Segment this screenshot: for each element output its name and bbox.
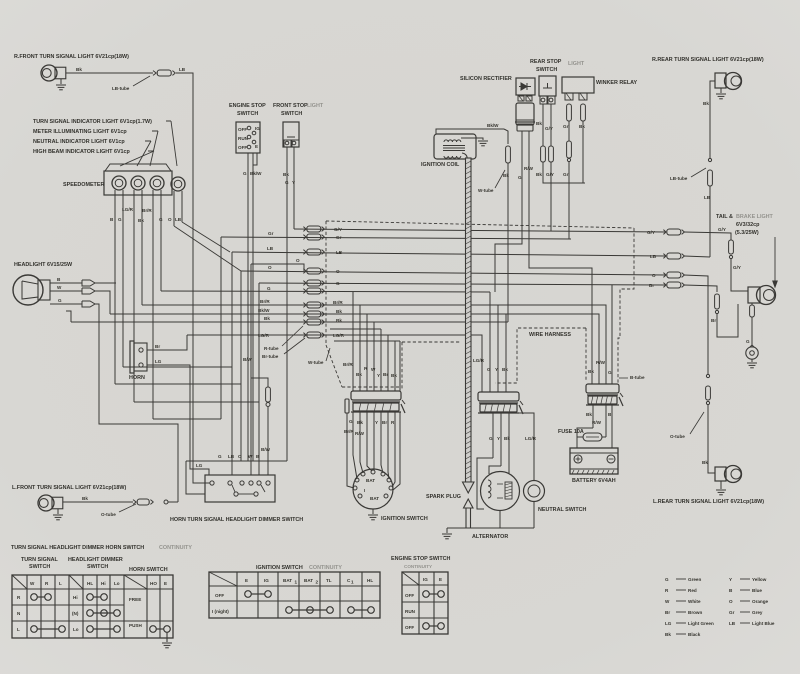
- svg-text:SWITCH: SWITCH: [29, 564, 50, 570]
- short stub wire near headlight: [66, 311, 71, 322]
- svg-text:E: E: [439, 577, 442, 582]
- svg-text:L.REAR TURN SIGNAL LIGHT 6V21c: L.REAR TURN SIGNAL LIGHT 6V21cp(18W): [653, 499, 764, 505]
- svg-text:G: G: [746, 339, 750, 344]
- wire G/Y from front stop switch: [293, 147, 295, 229]
- svg-text:LB-tube: LB-tube: [670, 176, 688, 181]
- svg-text:CONTINUITY: CONTINUITY: [309, 565, 342, 571]
- svg-text:Bk: Bk: [665, 632, 671, 637]
- wire LB drop to dimmer switch: [231, 252, 233, 475]
- svg-text:Bk: Bk: [357, 420, 363, 425]
- battery plus terminal: [574, 455, 582, 463]
- wire LB to R.rear drop: [684, 256, 710, 257]
- svg-text:NEUTRAL SWITCH: NEUTRAL SWITCH: [538, 507, 587, 513]
- svg-text:White: White: [688, 599, 701, 604]
- svg-text:Gr: Gr: [268, 231, 274, 236]
- svg-text:Br: Br: [711, 318, 716, 323]
- tail lamp ground path: [751, 303, 753, 305]
- svg-text:BAT: BAT: [304, 578, 313, 583]
- wire Gr from relay: [568, 121, 570, 141]
- extra horizontal feeders: [330, 328, 381, 330]
- svg-text:6V3/32cp: 6V3/32cp: [736, 222, 760, 228]
- wire R/W from rectifier: [529, 131, 592, 384]
- svg-text:Bk: Bk: [82, 496, 88, 501]
- dashed harness outline top: [326, 221, 634, 228]
- svg-text:O: O: [268, 265, 272, 270]
- svg-text:Br: Br: [155, 344, 160, 349]
- svg-text:E: E: [245, 578, 248, 583]
- svg-text:G: G: [336, 281, 340, 286]
- wire Br to tail lamp return: [684, 285, 717, 292]
- table 2 frame: [209, 572, 380, 618]
- wire bus Gr: [221, 237, 571, 239]
- table 1 continuity row Lo: [87, 626, 94, 633]
- wire G down-left loop to L.front area: [95, 304, 178, 502]
- table 3 continuity row OFF 1: [423, 591, 430, 598]
- wire LG/R from bulb2: [133, 196, 135, 402]
- svg-text:O-tube: O-tube: [670, 434, 685, 439]
- table 1 continuity row (N): [87, 610, 94, 617]
- R.rear turn signal lamp: [715, 73, 726, 88]
- table 1 frame: [12, 575, 173, 638]
- svg-text:1: 1: [351, 580, 354, 585]
- bus connector O: [303, 269, 306, 271]
- L.front turn signal lamp: [38, 495, 54, 511]
- wire Bk from rear stop switch: [542, 104, 544, 146]
- svg-text:Y: Y: [497, 436, 500, 441]
- svg-text:Bk: Bk: [138, 218, 144, 223]
- svg-text:W: W: [57, 285, 62, 290]
- svg-text:B-tube: B-tube: [630, 375, 645, 380]
- svg-text:LB: LB: [175, 217, 182, 222]
- wire G/Y to tail light: [684, 232, 731, 240]
- svg-text:Y: Y: [292, 180, 295, 185]
- wire B to junction: [95, 282, 116, 284]
- svg-text:BRAKE LIGHT: BRAKE LIGHT: [736, 214, 774, 220]
- wire bus Bk: [71, 321, 508, 323]
- wire G/Y down to tail lamp: [731, 259, 748, 291]
- svg-text:Gr: Gr: [336, 235, 342, 240]
- horn body: [130, 341, 134, 373]
- side tab of connector block: [345, 399, 349, 413]
- svg-text:Gr: Gr: [563, 124, 569, 129]
- svg-text:Br-tube: Br-tube: [262, 354, 279, 359]
- table 1 ground under E column: [166, 632, 168, 642]
- wire G from bulb3: [160, 196, 162, 291]
- svg-text:Br: Br: [383, 372, 388, 377]
- table 1 header diagonals: [12, 575, 27, 589]
- svg-text:G/Y: G/Y: [718, 227, 726, 232]
- svg-text:O: O: [336, 269, 340, 274]
- wires below harness connector: [492, 413, 494, 458]
- svg-text:TURN SIGNAL HEADLIGHT DIMMER H: TURN SIGNAL HEADLIGHT DIMMER HORN SWITCH: [11, 545, 144, 551]
- svg-text:Bk/W: Bk/W: [258, 308, 270, 313]
- svg-text:Br/R: Br/R: [333, 300, 343, 305]
- wire B/W drop with connector to dimmer switch: [251, 314, 268, 387]
- svg-text:R.FRONT TURN SIGNAL LIGHT 6V21: R.FRONT TURN SIGNAL LIGHT 6V21cp(18W): [14, 54, 129, 60]
- svg-text:O: O: [168, 217, 172, 222]
- ground symbol: [446, 528, 448, 533]
- dimmer switch terminals bottom row: [234, 492, 238, 496]
- svg-text:HORN TURN SIGNAL HEADLIGHT DIM: HORN TURN SIGNAL HEADLIGHT DIMMER SWITCH: [170, 517, 303, 523]
- svg-text:Gr: Gr: [563, 172, 569, 177]
- svg-text:(N): (N): [72, 611, 79, 616]
- wire Bk from bulb3: [152, 196, 154, 419]
- wire LB from bulb4: [181, 197, 183, 222]
- wire bus LB: [232, 252, 666, 256]
- svg-text:FUSE 10A: FUSE 10A: [558, 429, 584, 435]
- wire Bk to junction: [543, 162, 585, 183]
- svg-text:SWITCH: SWITCH: [87, 564, 108, 570]
- svg-text:Y: Y: [495, 367, 498, 372]
- svg-text:BAT: BAT: [370, 496, 379, 501]
- bus connector Br/R: [303, 303, 306, 305]
- wire Y to alternator: [489, 466, 501, 474]
- svg-text:(5.3/25W): (5.3/25W): [735, 230, 759, 236]
- wire LB down to dimmer switch: [176, 73, 205, 483]
- battery terminal ticks: [570, 468, 618, 470]
- svg-text:Y: Y: [377, 373, 380, 378]
- svg-text:L.FRONT TURN SIGNAL LIGHT 6V21: L.FRONT TURN SIGNAL LIGHT 6V21cp(18W): [12, 485, 127, 491]
- svg-text:Light Blue: Light Blue: [752, 621, 775, 626]
- svg-text:IG: IG: [423, 577, 428, 582]
- tube 2 on Gr wire: [567, 141, 572, 158]
- svg-text:PUSH: PUSH: [129, 623, 142, 628]
- winker relay body: [562, 77, 594, 93]
- silicon rectifier connectors: [518, 96, 524, 101]
- svg-text:W: W: [665, 599, 670, 604]
- right connector G/Y: [663, 230, 666, 232]
- svg-text:G: G: [218, 454, 222, 459]
- svg-text:O: O: [238, 454, 242, 459]
- svg-text:O: O: [729, 599, 733, 604]
- svg-text:G: G: [608, 370, 612, 375]
- svg-text:Light Green: Light Green: [688, 621, 714, 626]
- svg-text:O-tube: O-tube: [101, 512, 116, 517]
- svg-text:BAT: BAT: [283, 578, 292, 583]
- svg-text:HO: HO: [150, 581, 157, 586]
- svg-text:G/Y: G/Y: [334, 227, 342, 232]
- dimmer switch body: [205, 475, 275, 502]
- speedometer bulb 1: [112, 176, 126, 190]
- svg-text:G: G: [58, 298, 62, 303]
- speedometer bulb 2: [131, 176, 145, 190]
- dashed harness outline left: [325, 221, 327, 345]
- svg-text:W-tube: W-tube: [478, 188, 494, 193]
- svg-text:Bk: Bk: [283, 172, 289, 177]
- svg-text:BATTERY 6V4AH: BATTERY 6V4AH: [572, 478, 616, 484]
- fuse 10A body: [583, 433, 602, 441]
- tail and brake lamp: [748, 287, 760, 303]
- svg-text:HEADLIGHT DIMMER: HEADLIGHT DIMMER: [68, 557, 123, 563]
- svg-text:HORN: HORN: [129, 375, 145, 381]
- table 3 header diagonal: [402, 572, 419, 585]
- svg-text:WIRE HARNESS: WIRE HARNESS: [529, 332, 571, 338]
- svg-text:Bk: Bk: [588, 369, 594, 374]
- wire bus O: [241, 271, 666, 275]
- svg-text:SILICON RECTIFIER: SILICON RECTIFIER: [460, 76, 512, 82]
- wire bus LG/R: [187, 335, 482, 392]
- wire bus Br/R: [142, 305, 606, 384]
- svg-text:LG: LG: [155, 359, 162, 364]
- wire Bk/W down to rectifier area: [504, 129, 508, 144]
- wires from buses down to harness connector: [489, 292, 491, 392]
- table 1 continuity row PUSH: [150, 626, 157, 633]
- tube on tail G/Y wire: [729, 240, 734, 254]
- wire G/Y from rear stop switch: [550, 104, 552, 146]
- svg-text:LG/R: LG/R: [258, 333, 270, 338]
- wire Br from horn: [147, 335, 187, 350]
- spark plug cable arrowhead: [463, 482, 475, 493]
- wire Br corner to tail lamp: [717, 304, 738, 337]
- svg-text:Br: Br: [382, 420, 387, 425]
- wire Bk down from R.rear lamp: [710, 81, 715, 158]
- svg-text:LG/R: LG/R: [333, 333, 345, 338]
- svg-text:METER ILLUMINATING LIGHT 6V1cp: METER ILLUMINATING LIGHT 6V1cp: [33, 129, 127, 135]
- wires from connector to ignition switch: [353, 412, 357, 479]
- svg-text:G: G: [518, 175, 522, 180]
- svg-text:HIGH BEAM INDICATOR LIGHT 6V1c: HIGH BEAM INDICATOR LIGHT 6V1cp: [33, 149, 131, 155]
- bus connector Bk: [303, 320, 306, 322]
- ignition coil core: [443, 145, 465, 147]
- svg-text:Bk: Bk: [76, 67, 82, 72]
- headlight lamp: [13, 275, 43, 305]
- wire G from rectifier: [495, 131, 522, 292]
- ignition coil primary winding: [444, 140, 461, 142]
- svg-text:IG: IG: [255, 126, 260, 131]
- svg-text:R/W: R/W: [524, 166, 534, 171]
- dimmer switch left bracket wires: [205, 482, 210, 484]
- table 1 continuity row Hi: [87, 594, 94, 601]
- wire branch down to battery connector: [611, 285, 613, 384]
- svg-text:Bk/W: Bk/W: [250, 171, 262, 176]
- silicon rectifier diode box: [516, 78, 535, 95]
- bullet connector on B wire: [82, 280, 95, 286]
- engine stop switch body: [236, 122, 260, 153]
- spark plug electrode arrow: [464, 499, 474, 508]
- table 1 continuity row R: [31, 594, 38, 601]
- bus connector Gr: [303, 235, 306, 237]
- svg-text:LG: LG: [196, 463, 203, 468]
- svg-text:G: G: [118, 217, 122, 222]
- svg-text:SWITCH: SWITCH: [536, 67, 557, 73]
- wire fuse to battery plus: [576, 437, 578, 448]
- svg-text:2: 2: [316, 580, 319, 585]
- wire Gr drop to dimmer switch: [220, 237, 222, 419]
- wire O short jumper: [251, 264, 304, 271]
- wire O down to L.rear lamp: [706, 374, 709, 377]
- connector block harness: [478, 392, 519, 401]
- svg-text:Br/R: Br/R: [142, 208, 152, 213]
- wire W from headlight: [50, 290, 82, 292]
- alternator internal contact: [505, 482, 512, 499]
- svg-text:Br: Br: [665, 610, 670, 615]
- svg-text:IGNITION COIL: IGNITION COIL: [421, 162, 460, 168]
- svg-text:HEADLIGHT 6V15/25W: HEADLIGHT 6V15/25W: [14, 262, 73, 268]
- ground of R.rear turn signal: [720, 88, 722, 93]
- dashed box around harness connector: [495, 328, 586, 383]
- leader lines from labels to bulbs: [166, 120, 171, 122]
- ground bus wire: [447, 527, 534, 529]
- winker relay connectors: [565, 93, 573, 100]
- svg-text:IGNITION SWITCH: IGNITION SWITCH: [256, 565, 303, 571]
- table 3 continuity row OFF 2: [423, 623, 430, 630]
- ignition coil secondary winding: [444, 156, 461, 158]
- ignition switch pins: [371, 470, 375, 474]
- svg-text:W: W: [248, 454, 253, 459]
- wire G/Y down to G/Y bus: [550, 162, 552, 231]
- svg-text:Bk: Bk: [502, 367, 508, 372]
- svg-text:LB-tube: LB-tube: [112, 86, 130, 91]
- wire Gr down to Gr bus: [568, 162, 570, 239]
- ground of ignition switch: [372, 509, 374, 514]
- svg-text:B/W: B/W: [261, 447, 271, 452]
- wire neutral switch to ground bus: [533, 502, 535, 528]
- wire horizontal into dimmer area: [186, 460, 287, 462]
- svg-text:Bk: Bk: [391, 373, 397, 378]
- svg-text:FREE: FREE: [129, 597, 141, 602]
- bus connector G lower: [303, 289, 306, 291]
- svg-text:O: O: [652, 273, 656, 278]
- svg-text:LG/R: LG/R: [473, 358, 485, 363]
- svg-text:Brown: Brown: [688, 610, 702, 615]
- bus connector G/Y: [303, 227, 306, 229]
- speedometer bulb 4 (turn signal indicator): [171, 177, 185, 191]
- ignition switch body: [353, 469, 393, 509]
- tube on Bk/W wire: [506, 146, 511, 163]
- R.front turn signal lamp: [41, 65, 57, 81]
- svg-text:HORN SWITCH: HORN SWITCH: [129, 567, 168, 573]
- svg-text:Bk: Bk: [702, 460, 708, 465]
- svg-text:W-tube: W-tube: [308, 360, 324, 365]
- wire Bk from relay to junction: [582, 121, 584, 183]
- svg-text:LIGHT: LIGHT: [568, 61, 585, 67]
- connector block battery: [586, 384, 619, 393]
- svg-text:G/Y: G/Y: [733, 265, 741, 270]
- tube on Gr wire: [567, 104, 572, 121]
- svg-text:Br/R: Br/R: [344, 429, 354, 434]
- wire LB down to LB bus: [709, 186, 711, 257]
- wire O drop to dimmer switch: [240, 271, 242, 461]
- tube on G/Y wire: [549, 146, 554, 162]
- svg-text:Blue: Blue: [752, 588, 762, 593]
- right connector Br: [663, 283, 666, 285]
- svg-text:Black: Black: [688, 632, 701, 637]
- svg-text:Green: Green: [688, 577, 701, 582]
- svg-text:Bk: Bk: [703, 101, 709, 106]
- bus connector LB: [303, 250, 306, 252]
- svg-text:RUN: RUN: [405, 609, 416, 614]
- svg-text:ALTERNATOR: ALTERNATOR: [472, 534, 508, 540]
- svg-text:G: G: [243, 171, 247, 176]
- wire bus G upper / Br: [259, 283, 666, 285]
- svg-text:Orange: Orange: [752, 599, 769, 604]
- bus connector LG/R: [303, 333, 306, 335]
- ignition coil ground wire: [461, 138, 483, 140]
- svg-text:G: G: [349, 419, 353, 424]
- svg-text:Br: Br: [649, 283, 654, 288]
- svg-text:Grey: Grey: [752, 610, 763, 615]
- wires from buses to ignition connector: [352, 292, 354, 391]
- svg-text:E: E: [164, 581, 167, 586]
- svg-text:Bk: Bk: [336, 318, 342, 323]
- tube on R.rear wire: [708, 170, 713, 186]
- L.rear turn signal lamp: [715, 467, 726, 481]
- wire to battery minus: [602, 436, 606, 438]
- tube on Bk wire: [581, 104, 586, 121]
- wire B drop to dimmer switch: [258, 283, 260, 475]
- svg-text:Bk: Bk: [264, 316, 270, 321]
- svg-text:LIGHT: LIGHT: [307, 103, 324, 109]
- wire bus G/Y: [294, 229, 666, 232]
- bus connector Bk/W: [303, 312, 306, 314]
- bullet connector on W wire: [82, 288, 95, 294]
- front stop light switch body: [283, 122, 299, 147]
- svg-text:LB: LB: [267, 246, 274, 251]
- dimmer switch terminals top row: [210, 481, 214, 485]
- wire B from bulb1: [114, 196, 116, 384]
- svg-text:SPEEDOMETER: SPEEDOMETER: [63, 182, 104, 188]
- svg-text:I (night): I (night): [212, 609, 229, 614]
- table 2 continuity row OFF: [245, 591, 252, 598]
- svg-text:W: W: [30, 581, 35, 586]
- table 1 continuity row L: [31, 626, 38, 633]
- speedometer bulb 3: [150, 176, 164, 190]
- wire left drop from speedometer y419: [153, 418, 221, 420]
- svg-text:Bk: Bk: [586, 412, 592, 417]
- svg-text:SWITCH: SWITCH: [237, 111, 258, 117]
- svg-text:REAR STOP: REAR STOP: [530, 59, 562, 65]
- svg-text:G: G: [489, 436, 493, 441]
- svg-text:L: L: [17, 627, 20, 632]
- svg-text:NEUTRAL INDICATOR LIGHT 6V1cp: NEUTRAL INDICATOR LIGHT 6V1cp: [33, 139, 125, 145]
- wire from alternator to ground bus: [499, 510, 501, 528]
- speedometer body: [105, 164, 171, 171]
- ground of tail light: [751, 359, 753, 362]
- svg-text:B/W: B/W: [243, 357, 253, 362]
- svg-text:G: G: [487, 367, 491, 372]
- wire Bk to fuse: [577, 428, 593, 437]
- ignition coil body: [434, 134, 476, 159]
- svg-text:Lo: Lo: [73, 627, 79, 632]
- wire Br/R from bulb2: [141, 196, 143, 305]
- svg-text:BAT: BAT: [366, 478, 375, 483]
- svg-text:L: L: [59, 581, 62, 586]
- svg-text:Red: Red: [688, 588, 697, 593]
- bullet connector on G wire: [82, 301, 95, 307]
- svg-text:W: W: [371, 367, 376, 372]
- wire left drop from speedometer y367: [123, 366, 232, 368]
- svg-text:O: O: [296, 258, 300, 263]
- svg-text:ENGINE STOP SWITCH: ENGINE STOP SWITCH: [391, 556, 451, 562]
- spark plug high tension cord: [462, 153, 467, 160]
- svg-text:Lo: Lo: [114, 581, 120, 586]
- svg-text:Bk: Bk: [503, 173, 509, 178]
- wire O from bulb4: [173, 197, 175, 226]
- battery minus terminal: [607, 455, 615, 463]
- svg-text:Bk: Bk: [536, 172, 542, 177]
- table 3 frame: [402, 572, 448, 634]
- svg-text:LG/R: LG/R: [122, 207, 134, 212]
- alternator internal coils: [488, 480, 491, 498]
- wire Bk/W from ignition coil: [436, 129, 504, 134]
- svg-text:G: G: [665, 577, 669, 582]
- connector block ignition switch: [351, 391, 401, 400]
- dimmer switch contacts: [232, 485, 235, 492]
- svg-text:G/Y: G/Y: [647, 230, 655, 235]
- wire G from headlight: [50, 303, 82, 305]
- svg-text:TURN SIGNAL INDICATOR LIGHT 6V: TURN SIGNAL INDICATOR LIGHT 6V1cp(1.7W): [33, 119, 152, 125]
- wire G from bulb1: [122, 196, 124, 367]
